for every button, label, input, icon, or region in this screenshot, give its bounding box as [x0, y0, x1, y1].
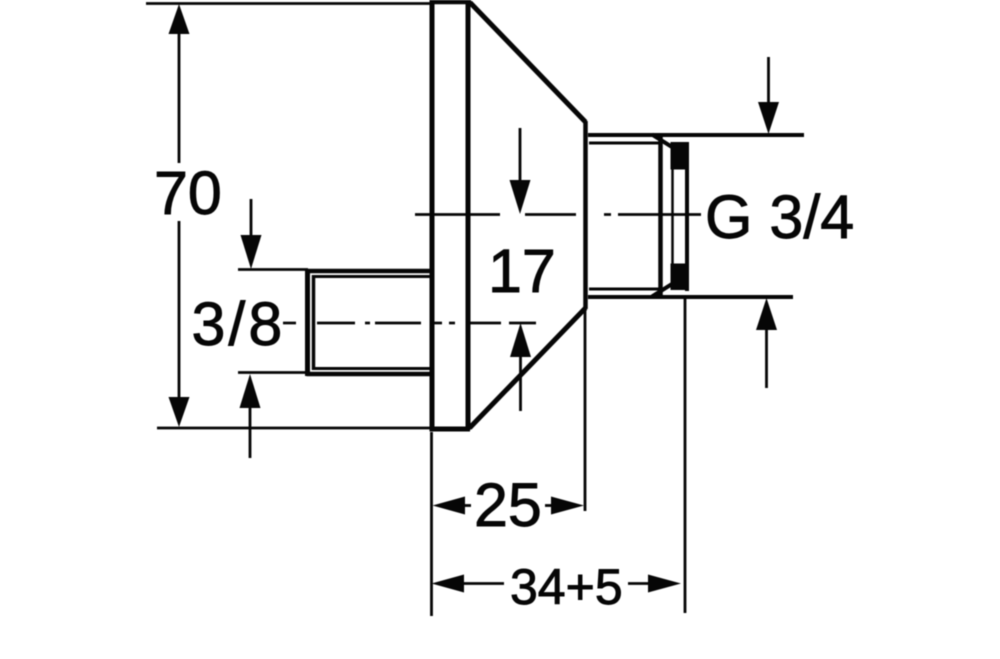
svg-text:34+5: 34+5	[510, 559, 623, 615]
dim 3/8 lower arrowhead	[240, 374, 261, 408]
thread G3/4 top root line	[589, 142, 660, 145]
thread top chamfer black block	[671, 142, 689, 170]
left pipe inner left end	[312, 275, 316, 370]
dim 25 right extension line	[584, 309, 587, 511]
3/8 pipe axis centerline	[283, 322, 536, 325]
thread end inner vertical	[671, 168, 674, 264]
svg-text:70: 70	[154, 159, 222, 227]
dim G3/4 top arrowhead	[758, 102, 779, 134]
dim 25 right stub	[545, 504, 553, 507]
dim 34+5 right extension line	[684, 299, 687, 613]
main axis centerline	[415, 213, 701, 216]
dim 34+5 left extension line	[430, 432, 433, 616]
left pipe inner top (root)	[315, 275, 431, 278]
flange left edge	[430, 1, 435, 430]
thread bottom chamfer diagonal	[652, 282, 676, 297]
thread G3/4 bottom crest line + extension	[588, 295, 793, 299]
dim 70 line lower part	[178, 221, 181, 400]
dim 70 bottom extension line	[157, 427, 430, 430]
dim 70 arrowhead top	[169, 4, 190, 34]
svg-text:3/8: 3/8	[192, 290, 286, 358]
dim 25 left stub	[463, 504, 471, 507]
dim 17 lower arrow shaft	[519, 355, 522, 411]
dim 17 lower arrowhead	[510, 323, 531, 357]
cone bottom diagonal	[470, 308, 586, 428]
dim 25 right arrowhead	[551, 497, 584, 515]
left pipe outer left end	[305, 269, 310, 376]
dim 70 arrowhead bottom	[169, 397, 190, 427]
dim 34+5 right shaft	[628, 582, 651, 585]
thread end vertical	[658, 135, 663, 297]
dim 3/8 upper arrow shaft	[250, 199, 253, 236]
flange top cap	[430, 0, 472, 4]
flange bottom cap	[430, 427, 471, 432]
dim 34+5 right arrowhead	[648, 575, 681, 593]
dim 70 line upper part	[178, 30, 181, 163]
dim 3/8 upper extension line	[238, 268, 308, 271]
left pipe outer top	[307, 269, 431, 274]
thread G3/4 top crest line + extension	[588, 133, 804, 137]
dim 17 upper arrowhead	[510, 180, 531, 214]
dim 34+5 left arrowhead	[432, 575, 465, 593]
thread G3/4 bottom root line	[589, 288, 660, 291]
svg-text:25: 25	[474, 471, 542, 539]
dim 3/8 lower arrow shaft	[249, 405, 252, 458]
svg-text:G 3/4: G 3/4	[705, 183, 854, 251]
left pipe outer bottom	[307, 372, 431, 377]
dim 34+5 left shaft	[461, 582, 504, 585]
thread bottom chamfer black block	[671, 264, 689, 291]
thread top chamfer diagonal	[652, 135, 676, 150]
dim 17 upper arrow shaft	[519, 128, 522, 183]
cone top diagonal	[470, 3, 586, 123]
dim 70 top extension line	[146, 2, 434, 5]
dim G3/4 bottom arrow shaft	[765, 327, 768, 388]
cone face vertical	[583, 121, 588, 309]
dim 3/8 lower extension line	[238, 371, 307, 374]
dim 25 left arrowhead	[433, 497, 466, 515]
dim G3/4 bottom arrowhead	[756, 298, 777, 330]
dim 3/8 upper arrowhead	[241, 235, 262, 269]
dim G3/4 top arrow shaft	[767, 57, 770, 105]
left pipe inner bottom (root)	[315, 367, 431, 370]
thread end cap vertical	[685, 142, 689, 291]
svg-text:17: 17	[488, 237, 556, 305]
flange right edge	[466, 1, 471, 430]
